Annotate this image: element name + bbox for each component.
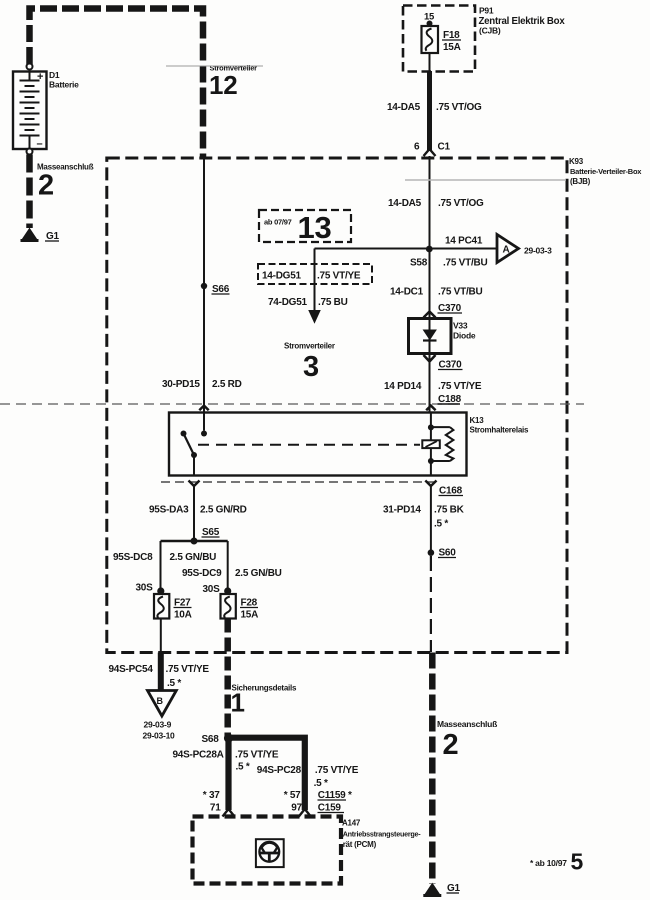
svg-text:1: 1 [231, 688, 245, 718]
svg-text:12: 12 [209, 70, 237, 100]
svg-text:10A: 10A [174, 610, 192, 621]
svg-text:31-PD14: 31-PD14 [383, 505, 421, 516]
svg-text:29-03-10: 29-03-10 [143, 731, 176, 741]
svg-text:14-DA5: 14-DA5 [388, 198, 422, 209]
svg-text:.75 VT/YE: .75 VT/YE [438, 381, 482, 392]
svg-text:.75 VT/YE: .75 VT/YE [235, 750, 279, 761]
svg-text:K93: K93 [569, 157, 584, 166]
svg-text:74-DG51: 74-DG51 [268, 297, 308, 308]
svg-text:K13: K13 [470, 416, 485, 425]
svg-text:V33: V33 [453, 321, 468, 331]
svg-text:Antriebsstrangsteuerge-: Antriebsstrangsteuerge- [343, 830, 422, 839]
svg-text:.75 VT/YE: .75 VT/YE [315, 765, 359, 776]
svg-text:97: 97 [291, 803, 302, 814]
svg-text:30S: 30S [136, 583, 154, 594]
svg-text:94S-PC54: 94S-PC54 [109, 664, 154, 675]
svg-text:14-DA5: 14-DA5 [387, 102, 421, 113]
svg-text:.75 BK: .75 BK [434, 505, 465, 516]
svg-text:(CJB): (CJB) [479, 26, 501, 36]
svg-text:13: 13 [298, 210, 332, 245]
svg-text:71: 71 [210, 803, 221, 814]
svg-text:29-03-3: 29-03-3 [524, 246, 552, 256]
svg-text:* 37: * 37 [203, 790, 220, 801]
svg-text:95S-DC8: 95S-DC8 [113, 552, 153, 563]
svg-text:Stromhalterelais: Stromhalterelais [470, 426, 529, 435]
svg-text:D1: D1 [49, 70, 60, 80]
svg-text:Masseanschluß: Masseanschluß [437, 719, 497, 729]
svg-text:Batterie: Batterie [49, 80, 79, 90]
svg-text:P91: P91 [479, 6, 494, 16]
svg-text:2.5 RD: 2.5 RD [212, 379, 242, 390]
svg-text:A147: A147 [342, 819, 361, 828]
svg-text:Diode: Diode [453, 331, 476, 341]
svg-text:.5 *: .5 * [167, 678, 181, 689]
svg-text:.75 BU: .75 BU [318, 297, 348, 308]
svg-text:29-03-9: 29-03-9 [144, 720, 172, 730]
svg-text:15: 15 [424, 12, 435, 23]
svg-text:.5 *: .5 * [236, 762, 250, 773]
svg-text:15A: 15A [443, 42, 461, 53]
svg-text:Stromverteiler: Stromverteiler [284, 342, 335, 351]
svg-text:2.5 GN/BU: 2.5 GN/BU [170, 552, 217, 563]
svg-text:B: B [157, 696, 164, 706]
svg-text:14-DC1: 14-DC1 [390, 287, 424, 298]
svg-text:.5 *: .5 * [434, 519, 448, 530]
svg-text:(BJB): (BJB) [570, 177, 591, 186]
svg-text:2: 2 [443, 729, 459, 761]
svg-text:30-PD15: 30-PD15 [162, 379, 200, 390]
svg-text:.75 VT/OG: .75 VT/OG [438, 198, 484, 209]
svg-text:.75 VT/YE: .75 VT/YE [166, 664, 210, 675]
svg-text:30S: 30S [203, 584, 221, 595]
svg-text:Batterie-Verteiler-Box: Batterie-Verteiler-Box [570, 167, 642, 176]
svg-text:.5 *: .5 * [314, 778, 328, 789]
svg-text:95S-DC9: 95S-DC9 [182, 568, 222, 579]
svg-text:* ab 10/97: * ab 10/97 [530, 858, 567, 868]
svg-text:A: A [503, 245, 510, 256]
svg-text:15A: 15A [241, 610, 259, 621]
svg-text:ab 07/97: ab 07/97 [264, 218, 292, 227]
svg-text:–: – [37, 138, 43, 150]
svg-text:* 57: * 57 [284, 790, 301, 801]
svg-text:.75 VT/BU: .75 VT/BU [438, 287, 482, 298]
svg-text:5: 5 [571, 849, 584, 875]
svg-text:2.5 GN/BU: 2.5 GN/BU [235, 568, 282, 579]
svg-text:14 PC41: 14 PC41 [445, 236, 483, 247]
svg-text:14 PD14: 14 PD14 [384, 381, 422, 392]
svg-text:94S-PC28A: 94S-PC28A [173, 750, 224, 761]
svg-text:S68: S68 [202, 734, 220, 745]
svg-text:2: 2 [38, 170, 54, 202]
svg-text:S58: S58 [410, 258, 428, 269]
svg-text:94S-PC28: 94S-PC28 [257, 765, 302, 776]
svg-text:.75 VT/YE: .75 VT/YE [317, 271, 361, 282]
svg-text:rät (PCM): rät (PCM) [343, 840, 377, 849]
svg-text:C1: C1 [438, 142, 451, 153]
svg-text:95S-DA3: 95S-DA3 [149, 505, 189, 516]
svg-text:6: 6 [414, 142, 420, 153]
svg-text:2.5 GN/RD: 2.5 GN/RD [200, 505, 247, 516]
svg-text:3: 3 [303, 351, 319, 383]
svg-text:+: + [37, 71, 43, 83]
svg-text:14-DG51: 14-DG51 [262, 271, 302, 282]
svg-text:.75 VT/OG: .75 VT/OG [436, 102, 482, 113]
svg-text:.75 VT/BU: .75 VT/BU [443, 258, 487, 269]
